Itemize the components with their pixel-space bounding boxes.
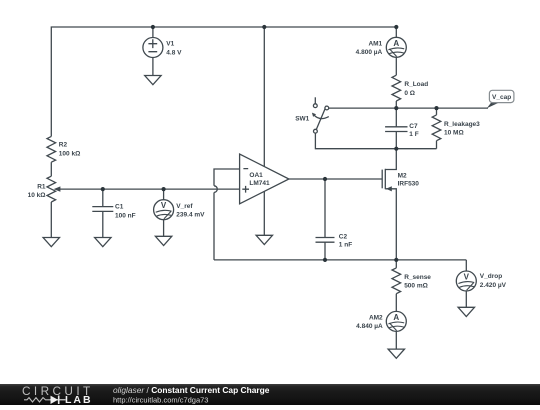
svg-text:IRF530: IRF530 [398,181,420,188]
svg-text:500 mΩ: 500 mΩ [404,283,428,290]
svg-text:100 nF: 100 nF [115,212,136,219]
svg-text:R1: R1 [37,183,46,190]
svg-text:V1: V1 [166,41,174,48]
svg-text:V: V [464,273,470,282]
svg-text:R_sense: R_sense [404,274,431,281]
svg-text:10 MΩ: 10 MΩ [444,130,464,137]
svg-text:4.840 µA: 4.840 µA [356,323,383,330]
svg-text:A: A [393,39,399,48]
svg-text:M2: M2 [398,173,407,180]
svg-text:AM1: AM1 [368,40,382,47]
svg-text:10 kΩ: 10 kΩ [28,192,46,199]
svg-text:C7: C7 [409,123,418,130]
svg-text:LAB: LAB [65,394,93,405]
svg-text:4.8 V: 4.8 V [166,49,182,56]
svg-text:2.420 µV: 2.420 µV [480,282,507,289]
svg-text:1 F: 1 F [409,131,418,138]
svg-text:V: V [161,201,167,210]
svg-text:V_ref: V_ref [176,203,193,210]
svg-text:0 Ω: 0 Ω [404,90,415,97]
svg-text:LM741: LM741 [249,180,270,187]
svg-text:C1: C1 [115,204,124,211]
svg-text:V_cap: V_cap [492,94,511,101]
svg-text:http://circuitlab.com/c7dga73: http://circuitlab.com/c7dga73 [113,396,208,405]
svg-text:OA1: OA1 [249,172,263,179]
svg-text:AM2: AM2 [369,314,383,321]
svg-text:R_leakage3: R_leakage3 [444,121,480,128]
svg-text:A: A [393,313,399,322]
svg-text:1 nF: 1 nF [339,241,352,248]
svg-text:4.800 µA: 4.800 µA [356,49,383,56]
svg-text:239.4 mV: 239.4 mV [176,212,205,219]
svg-text:R2: R2 [59,141,68,148]
svg-text:100 kΩ: 100 kΩ [59,151,80,158]
svg-text:oliglaser / Constant Current C: oliglaser / Constant Current Cap Charge [113,386,270,396]
svg-text:V_drop: V_drop [480,273,502,280]
svg-text:SW1: SW1 [295,115,309,122]
svg-text:C2: C2 [339,234,348,241]
svg-text:R_Load: R_Load [404,81,428,88]
